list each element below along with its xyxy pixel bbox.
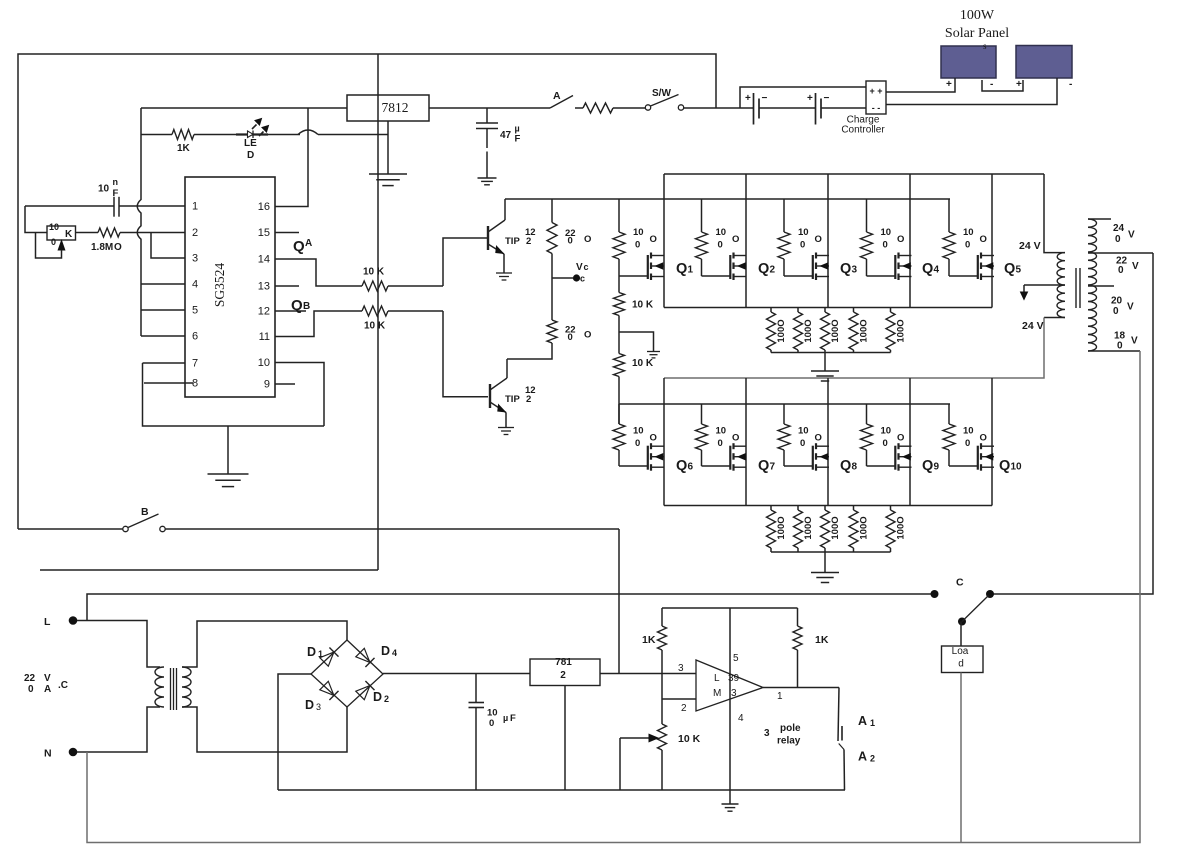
svg-text:10 K: 10 K	[364, 321, 386, 332]
wire: 220V drop	[990, 253, 1153, 594]
op-amp U4 LM393	[678, 653, 783, 724]
svg-text:relay: relay	[777, 736, 801, 747]
svg-text:D: D	[373, 690, 382, 704]
svg-text:d: d	[958, 659, 964, 670]
regulator U2 7812 box	[347, 95, 429, 121]
svg-text:10 K: 10 K	[363, 267, 385, 278]
svg-text:0: 0	[718, 240, 723, 251]
wire: DC plus	[383, 673, 530, 675]
wire: pin3 jumper	[151, 233, 185, 259]
svg-text:3: 3	[678, 663, 684, 674]
svg-text:9: 9	[264, 379, 270, 391]
svg-text:0: 0	[635, 240, 640, 251]
svg-text:100W: 100W	[960, 8, 995, 23]
svg-text:O: O	[584, 234, 591, 245]
wire: bus bottom link y=570	[40, 569, 378, 571]
ground: TIP1 emitter	[496, 273, 512, 280]
svg-text:6: 6	[688, 462, 694, 473]
resistor: source resistor 100 ohm lower 4	[849, 506, 870, 553]
wire: lower bank vertical 3	[827, 378, 829, 506]
svg-text:Q: Q	[758, 261, 769, 277]
wire: upper bank vertical 4	[909, 174, 911, 308]
wire: pot to pin1/pin2 lines	[25, 206, 47, 233]
svg-text:4: 4	[934, 265, 940, 276]
svg-text:0: 0	[965, 240, 970, 251]
svg-text:1K: 1K	[642, 634, 656, 646]
label: 100W Solar Panel	[945, 8, 1009, 51]
svg-text:1: 1	[870, 718, 875, 728]
ground: 7812 ground	[369, 121, 407, 186]
svg-text:100O: 100O	[896, 319, 907, 342]
svg-text:0: 0	[1113, 306, 1119, 317]
svg-text:22: 22	[24, 673, 36, 684]
wire: transformer bottom 24V	[1022, 318, 1065, 333]
svg-text:L: L	[714, 673, 720, 684]
svg-text:10: 10	[798, 426, 809, 437]
resistor: source resistor 100 ohm upper 3	[821, 308, 842, 353]
wire: tap 220V	[1088, 253, 1153, 276]
svg-text:0: 0	[800, 240, 805, 251]
resistor: source resistor 100 ohm lower 3	[821, 506, 842, 553]
svg-text:3: 3	[764, 728, 770, 739]
wire: long vertical bus x=378	[377, 54, 379, 570]
svg-text:K: K	[65, 229, 73, 240]
svg-text:−: −	[762, 93, 768, 104]
diode D2	[356, 681, 389, 704]
ground: SG3524 ground	[208, 426, 249, 487]
svg-text:Q: Q	[1004, 261, 1015, 277]
svg-text:LE: LE	[244, 138, 257, 149]
transformer T1 core	[171, 668, 177, 710]
wire: upper drain rail y=174	[664, 173, 1044, 175]
wire: gate-drive rail y=199	[505, 198, 950, 200]
ground: lower bank ground	[811, 552, 839, 583]
wire: 7812 output line	[429, 107, 550, 109]
svg-text:5: 5	[192, 305, 198, 317]
terminal N	[44, 707, 160, 760]
svg-text:+: +	[1016, 79, 1022, 90]
svg-text:2: 2	[192, 227, 198, 239]
svg-text:D: D	[247, 150, 254, 161]
svg-text:+ +: + +	[869, 86, 882, 96]
svg-text:1: 1	[777, 691, 783, 702]
wire: battery top link	[740, 87, 866, 108]
svg-text:M: M	[713, 688, 721, 699]
svg-text:−: −	[824, 93, 830, 104]
wire: tap 200V	[1088, 286, 1134, 317]
svg-text:Q: Q	[291, 297, 303, 314]
wire: live to switch C	[87, 594, 934, 621]
resistor: gate resistor 100 ohm (Q10)	[943, 404, 987, 466]
transistor Q5 MOSFET	[978, 253, 1022, 281]
svg-text:O: O	[980, 433, 987, 444]
resistor R1 1K	[141, 130, 246, 155]
switch S/W	[645, 88, 753, 110]
svg-text:4: 4	[192, 279, 198, 291]
svg-text:O: O	[980, 234, 987, 245]
resistor R9 1K	[642, 608, 667, 699]
label: 3 pole relay	[764, 723, 801, 747]
svg-text:2: 2	[526, 394, 531, 405]
svg-text:V: V	[1127, 302, 1134, 313]
svg-text:2: 2	[681, 703, 687, 714]
pot VR2 10K	[620, 699, 701, 790]
transistor Q2 MOSFET	[730, 253, 775, 281]
svg-text:2: 2	[870, 754, 875, 764]
diode D4	[356, 644, 397, 667]
charge controller box	[841, 81, 886, 136]
relay contact A1 A2	[838, 688, 875, 791]
resistor R2 1.8M	[76, 228, 186, 253]
svg-text:7: 7	[192, 358, 198, 370]
wire: load drop	[960, 673, 962, 843]
svg-text:Q: Q	[840, 458, 851, 474]
svg-text:S/W: S/W	[652, 88, 671, 99]
wire: Q-bank to transformer top	[1019, 174, 1065, 253]
wire: IC bottom loop	[143, 363, 325, 426]
wire: upper bank vertical 3	[827, 174, 829, 308]
resistor: gate resistor 100 ohm (Q5)	[943, 199, 987, 276]
transistor Q9 MOSFET	[895, 443, 939, 474]
wire: lower bank vertical 4	[909, 378, 911, 506]
wire: comparator centre vertical	[729, 608, 731, 804]
svg-text:O: O	[897, 234, 904, 245]
transformer T2 secondary	[1088, 219, 1097, 351]
wire: pin9 stub	[275, 383, 295, 385]
regulator U3 7812 box	[530, 657, 600, 790]
wire: upper bank vertical 1	[663, 174, 665, 308]
resistor: gate resistor 100 ohm (Q1)	[613, 199, 657, 276]
svg-text:1: 1	[688, 265, 694, 276]
svg-text:F: F	[113, 188, 119, 199]
svg-text:100O: 100O	[803, 516, 814, 539]
svg-text:7: 7	[770, 462, 776, 473]
IC U1 pin numbers	[192, 201, 270, 391]
svg-text:5: 5	[733, 653, 739, 664]
svg-text:O: O	[732, 433, 739, 444]
wire: regulator out to comparator	[600, 673, 696, 675]
svg-text:11: 11	[259, 331, 270, 343]
svg-text:24 V: 24 V	[1019, 240, 1041, 252]
transistor Q7 MOSFET	[730, 443, 775, 474]
svg-text:10: 10	[633, 227, 644, 238]
wire: pin10 to bottom loop	[275, 363, 324, 427]
transistor TIP122 lower	[490, 359, 536, 428]
resistor: gate resistor 100 ohm (Q3)	[778, 199, 822, 276]
svg-text:Q: Q	[840, 261, 851, 277]
svg-text:O: O	[114, 242, 122, 253]
svg-text:4: 4	[738, 713, 744, 724]
wire: 12V to pin16	[275, 108, 308, 207]
wire: lower drain rail y=378 (grey)	[664, 318, 1044, 379]
svg-text:O: O	[815, 433, 822, 444]
svg-text:0: 0	[51, 237, 56, 247]
svg-text:2: 2	[526, 236, 531, 247]
svg-text:4: 4	[392, 648, 397, 658]
svg-text:0: 0	[883, 240, 888, 251]
svg-text:-: -	[990, 79, 993, 90]
svg-text:B: B	[141, 506, 149, 518]
svg-text:100O: 100O	[830, 319, 841, 342]
svg-text:A: A	[553, 90, 561, 102]
svg-text:10: 10	[963, 426, 974, 437]
svg-text:Q: Q	[676, 261, 687, 277]
svg-text:O: O	[650, 234, 657, 245]
svg-text:Q: Q	[922, 261, 933, 277]
svg-text:100O: 100O	[830, 516, 841, 539]
wire: B to comparator input	[618, 529, 620, 674]
svg-text:SG3524: SG3524	[212, 263, 227, 308]
load box	[942, 622, 984, 673]
svg-text:16: 16	[258, 201, 270, 213]
svg-text:10: 10	[633, 426, 644, 437]
svg-text:O: O	[815, 234, 822, 245]
wire: PV1 minus to PV2 plus	[982, 80, 1023, 91]
wire: QA to TIP1 base	[443, 238, 487, 286]
svg-text:c: c	[580, 274, 585, 284]
ground: TIP2 emitter	[498, 428, 514, 435]
wire: QB to TIP2 base	[443, 311, 488, 397]
wire: pin7 stub	[143, 362, 186, 364]
transistor Q4 MOSFET	[895, 253, 939, 281]
svg-text:24: 24	[1113, 223, 1125, 234]
node QB label	[291, 297, 310, 314]
svg-text:µ: µ	[515, 124, 520, 134]
svg-text:V: V	[1132, 261, 1139, 272]
wire: PV2 minus to CC	[886, 78, 1057, 105]
svg-text:A: A	[858, 750, 867, 764]
transistor Q8 MOSFET	[813, 443, 858, 474]
svg-text:Q: Q	[758, 458, 769, 474]
svg-text:A: A	[305, 238, 312, 249]
svg-text:1.8M: 1.8M	[91, 242, 113, 253]
svg-text:10: 10	[1011, 462, 1023, 473]
resistor: gate resistor 100 ohm (Q9)	[861, 404, 905, 466]
svg-text:10 K: 10 K	[632, 300, 654, 311]
resistor: source resistor 100 ohm upper 5	[886, 308, 907, 353]
transformer T1 primary	[155, 667, 164, 707]
svg-text:O: O	[650, 433, 657, 444]
wire: T1 sec bottom to bridge	[182, 707, 347, 752]
svg-text:A: A	[858, 714, 867, 728]
wire: upper source rail y=307.5	[664, 307, 992, 309]
svg-text:0: 0	[965, 438, 970, 449]
svg-text:V: V	[1128, 230, 1135, 241]
ground: 47uF ground	[478, 178, 497, 185]
switch B	[18, 506, 619, 532]
transformer T2 core	[1076, 268, 1080, 308]
wire: neutral bottom loop	[87, 351, 1140, 843]
svg-text:Loa: Loa	[952, 646, 969, 657]
wire: pin5 stub	[141, 309, 185, 311]
LED	[236, 119, 300, 162]
svg-text:Solar Panel: Solar Panel	[945, 26, 1009, 41]
svg-text:.C: .C	[58, 680, 68, 691]
wire: lower gate rail y=404	[619, 403, 950, 405]
svg-text:10: 10	[487, 708, 498, 719]
svg-text:0: 0	[1117, 341, 1123, 352]
svg-text:- -: - -	[872, 103, 881, 113]
svg-text:n: n	[113, 177, 119, 187]
node QA label	[293, 238, 312, 255]
svg-text:10 K: 10 K	[678, 733, 701, 745]
svg-text:A: A	[44, 684, 51, 695]
transistor Q10 MOSFET	[978, 443, 1022, 474]
wire: pin6 stub	[141, 335, 185, 337]
switch A	[550, 90, 583, 108]
svg-text:100O: 100O	[896, 516, 907, 539]
svg-text:2: 2	[770, 265, 776, 276]
svg-text:8: 8	[852, 462, 858, 473]
resistor: source resistor 100 ohm upper 4	[849, 308, 870, 353]
svg-text:1K: 1K	[177, 143, 191, 154]
resistor: source resistor 100 ohm upper 1	[767, 308, 788, 353]
svg-text:7812: 7812	[382, 100, 409, 115]
svg-text:10: 10	[798, 227, 809, 238]
svg-text:10: 10	[258, 357, 270, 369]
svg-text:24 V: 24 V	[1022, 320, 1044, 332]
transistor TIP122 upper	[488, 199, 536, 273]
resistor: gate resistor 100 ohm (Q2)	[696, 199, 740, 276]
svg-text:Q: Q	[922, 458, 933, 474]
svg-text:10: 10	[49, 222, 59, 232]
switch C	[931, 577, 995, 626]
svg-text:D: D	[381, 644, 390, 658]
wire: bridge diamond	[311, 640, 383, 707]
wire: pin4 stub	[141, 283, 185, 285]
svg-text:10: 10	[963, 227, 974, 238]
svg-text:3: 3	[192, 253, 198, 265]
svg-text:pole: pole	[780, 723, 801, 734]
svg-text:15: 15	[258, 227, 270, 239]
svg-text:2: 2	[384, 694, 389, 704]
svg-text:10: 10	[98, 184, 110, 195]
resistor: source resistor 100 ohm lower 2	[794, 506, 815, 553]
resistor: series resistor after switch A	[583, 103, 647, 113]
resistor R6 220	[507, 278, 591, 359]
svg-text:20: 20	[1111, 296, 1123, 307]
svg-text:12: 12	[258, 306, 270, 318]
resistor R10 1K	[793, 608, 829, 687]
svg-text:V: V	[576, 262, 583, 273]
svg-text:+: +	[946, 79, 952, 90]
resistor R8 10K	[614, 332, 654, 424]
resistor: source resistor 100 ohm lower 5	[886, 506, 907, 553]
resistor R7 10K	[614, 276, 654, 332]
svg-text:10: 10	[716, 227, 727, 238]
svg-text:-: -	[1069, 79, 1072, 90]
transistor Q6 MOSFET	[648, 443, 694, 474]
resistor: gate resistor 100 ohm (Q6)	[613, 404, 657, 466]
battery B2	[807, 93, 866, 125]
svg-text:100O: 100O	[859, 319, 870, 342]
svg-text:1: 1	[192, 201, 198, 213]
diode D1	[307, 645, 339, 666]
svg-text:Q: Q	[999, 458, 1010, 474]
wire: lower bank vertical 2	[745, 378, 747, 506]
resistor R3 10K	[275, 259, 443, 291]
svg-text:100O: 100O	[776, 516, 787, 539]
resistor: gate resistor 100 ohm (Q4)	[861, 199, 905, 276]
svg-text:O: O	[584, 330, 591, 341]
svg-text:0: 0	[568, 236, 573, 247]
node Vc	[552, 262, 589, 284]
wire: 12V supply line into 7812	[141, 107, 347, 109]
wire: lower bank vertical 1	[663, 378, 665, 506]
transformer T1 secondary	[182, 667, 191, 707]
wire: LED return with hop	[298, 130, 388, 135]
resistor: source resistor 100 ohm lower 1	[767, 506, 788, 553]
svg-text:c: c	[584, 262, 589, 272]
svg-text:+: +	[807, 93, 813, 104]
svg-text:0: 0	[28, 684, 34, 695]
svg-text:100O: 100O	[859, 516, 870, 539]
svg-text:V: V	[44, 673, 51, 684]
svg-text:L: L	[44, 616, 51, 628]
svg-text:Q: Q	[293, 238, 305, 255]
svg-text:O: O	[732, 234, 739, 245]
label: 220V AC	[24, 673, 68, 695]
svg-text:B: B	[303, 301, 310, 312]
wire: DC minus	[278, 674, 311, 790]
IC U1 SG3524 body	[185, 177, 275, 397]
wire: upper source resistor bottom rail	[771, 352, 891, 354]
solar panel PV1	[941, 46, 996, 78]
svg-text:D: D	[307, 645, 316, 659]
resistor: gate resistor 100 ohm (Q8)	[778, 404, 822, 466]
svg-text:3: 3	[316, 702, 321, 712]
svg-text:2: 2	[560, 670, 566, 681]
svg-text:10 K: 10 K	[632, 358, 654, 369]
resistor: gate resistor 100 ohm (Q7)	[696, 404, 740, 466]
svg-text:0: 0	[568, 332, 573, 343]
svg-text:+: +	[745, 93, 751, 104]
svg-text:100O: 100O	[776, 319, 787, 342]
ground: divider tap ground	[619, 332, 660, 358]
svg-text:F: F	[510, 713, 516, 724]
wire: pin12 stub	[275, 310, 306, 312]
svg-text:100O: 100O	[803, 319, 814, 342]
svg-text:13: 13	[258, 281, 270, 293]
svg-text:1K: 1K	[815, 634, 829, 646]
wire: pin15 stub	[275, 232, 299, 234]
resistor R4 10K	[275, 306, 443, 337]
capacitor C1 10nF	[25, 177, 185, 217]
svg-text:6: 6	[192, 331, 198, 343]
wire: left vertical bus x=141 (with hops)	[137, 108, 141, 336]
wire: T1 sec top to bridge	[182, 621, 347, 667]
resistor R5 220	[547, 199, 591, 278]
wire: comparator pin2 link	[662, 698, 696, 700]
wire: lower bank vertical 5	[991, 378, 993, 506]
capacitor C3 100uF	[469, 674, 517, 791]
svg-text:O: O	[897, 433, 904, 444]
svg-text:TIP: TIP	[505, 394, 520, 405]
svg-text:0: 0	[883, 438, 888, 449]
wire: comparator top rail	[662, 607, 798, 609]
pot VR1 100K	[36, 222, 76, 258]
wire: pin8 stub	[144, 382, 193, 384]
svg-text:D: D	[305, 698, 314, 712]
wire: upper bank vertical 2	[745, 174, 747, 308]
svg-text:14: 14	[258, 254, 270, 266]
svg-text:0: 0	[1115, 234, 1121, 245]
svg-text:3: 3	[852, 265, 858, 276]
ground: upper bank ground	[811, 353, 839, 382]
svg-text:5: 5	[1016, 265, 1022, 276]
svg-text:N: N	[44, 748, 52, 760]
svg-text:F: F	[515, 134, 521, 145]
